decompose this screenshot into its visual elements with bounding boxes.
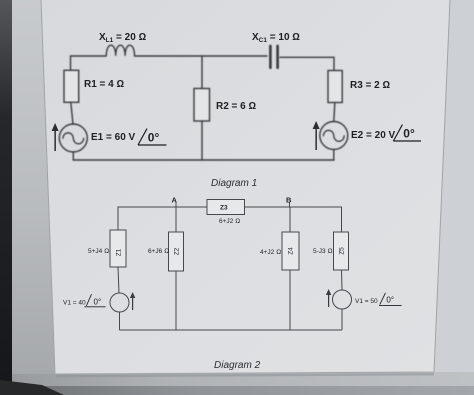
wire: diagram2 top rail right xyxy=(245,207,342,232)
resistor R2 xyxy=(194,89,210,122)
label Z1 rotated xyxy=(116,248,123,256)
label Z2 rotated xyxy=(174,247,181,255)
svg-text:Z4: Z4 xyxy=(288,247,295,255)
svg-text:V1 = 40: V1 = 40 xyxy=(63,299,86,306)
label R1 = 4 ohm xyxy=(84,79,125,90)
wire: diagram1 bottom rail xyxy=(73,159,334,161)
impedance Z4 xyxy=(282,232,299,270)
label V1 = 50 angle 0 xyxy=(355,293,402,306)
source V1 left xyxy=(110,293,129,312)
svg-text:R1 = 4 Ω: R1 = 4 Ω xyxy=(84,79,125,90)
node A label xyxy=(172,196,178,205)
label 6+J2 ohm xyxy=(219,218,240,225)
svg-text:V1 = 50: V1 = 50 xyxy=(355,298,378,305)
svg-text:Z2: Z2 xyxy=(174,247,181,255)
svg-text:0°: 0° xyxy=(148,131,160,145)
wire: R3 to E2 xyxy=(334,103,335,122)
label 5+J4 ohm xyxy=(88,248,109,255)
label XL1 = 20 ohm xyxy=(99,32,147,44)
label 6+J6 ohm xyxy=(148,248,169,255)
wire: diagram2 bottom rail xyxy=(120,329,343,331)
caption Diagram 1 xyxy=(211,178,257,189)
wire: V1 right to bottom rail xyxy=(341,309,343,330)
wire: E1 down to bottom rail xyxy=(72,152,74,160)
label Z3 xyxy=(220,205,228,212)
label 4+J2 ohm xyxy=(260,249,281,256)
wire: R1 to E1 xyxy=(71,102,73,124)
svg-text:5+J4 Ω: 5+J4 Ω xyxy=(88,248,109,255)
wire: R2 branch bottom xyxy=(201,121,203,160)
wire: Z5 to V1 right source xyxy=(341,270,344,290)
svg-text:Diagram 2: Diagram 2 xyxy=(214,360,261,371)
caption Diagram 2 xyxy=(214,360,261,371)
source E2 xyxy=(320,122,348,150)
label R3 = 2 ohm xyxy=(350,80,391,91)
svg-text:E2 = 20 V: E2 = 20 V xyxy=(351,130,396,141)
svg-text:4+J2 Ω: 4+J2 Ω xyxy=(260,249,281,256)
svg-text:R3 = 2 Ω: R3 = 2 Ω xyxy=(350,80,391,91)
wire: diagram1 top right segment xyxy=(280,57,334,70)
svg-text:6+J6 Ω: 6+J6 Ω xyxy=(148,248,169,255)
wire: Z4 branch xyxy=(289,207,291,330)
svg-text:Diagram 1: Diagram 1 xyxy=(211,178,257,189)
wire: diagram1 top-left segment xyxy=(71,56,107,70)
resistor R1 xyxy=(64,70,79,102)
current arrow at V1 right xyxy=(326,289,331,307)
impedance Z3 xyxy=(207,200,245,215)
inductor XL1 xyxy=(106,45,134,56)
label R2 = 6 ohm xyxy=(216,101,257,112)
svg-text:6+J2 Ω: 6+J2 Ω xyxy=(219,218,240,225)
svg-text:B: B xyxy=(286,196,292,205)
label E2 = 20 V angle 0 xyxy=(351,125,421,141)
wire: R2 branch top xyxy=(201,56,203,89)
svg-text:R2 = 6 Ω: R2 = 6 Ω xyxy=(216,101,257,112)
wire: Z2 branch xyxy=(175,207,177,330)
wire: Z1 to V1 left source xyxy=(118,267,119,293)
svg-text:Z5: Z5 xyxy=(339,247,346,255)
label V1 = 40 angle 0 xyxy=(63,294,106,307)
svg-text:0°: 0° xyxy=(386,296,394,305)
label Z4 rotated xyxy=(288,247,295,255)
svg-text:E1 = 60 V: E1 = 60 V xyxy=(91,132,136,143)
wire: V1 left to bottom rail xyxy=(119,312,121,330)
wire: diagram2 top rail left xyxy=(118,207,207,230)
svg-text:0°: 0° xyxy=(94,297,102,306)
node A tick xyxy=(175,202,177,207)
current arrow at E1 xyxy=(52,123,59,151)
label Z5 rotated xyxy=(339,247,346,255)
impedance Z5 xyxy=(334,232,349,270)
source E1 xyxy=(59,124,87,152)
label E1 = 60 V angle 0 xyxy=(91,129,167,145)
current arrow at E2 xyxy=(313,121,320,150)
wire: diagram1 top middle segment xyxy=(135,55,268,57)
capacitor XC1 xyxy=(270,46,277,68)
current arrow at V1 left xyxy=(130,292,135,310)
source V1 right xyxy=(333,290,352,309)
impedance Z1 xyxy=(110,230,126,267)
resistor R3 xyxy=(328,71,342,103)
svg-text:0°: 0° xyxy=(403,127,415,141)
svg-text:A: A xyxy=(172,196,178,205)
node B label xyxy=(286,196,292,205)
svg-text:Z3: Z3 xyxy=(220,205,228,212)
svg-text:5-J3 Ω: 5-J3 Ω xyxy=(313,248,332,255)
svg-text:Z1: Z1 xyxy=(116,248,123,256)
impedance Z2 xyxy=(169,232,184,271)
node B tick xyxy=(289,202,291,207)
label XC1 = 10 ohm xyxy=(252,32,300,44)
wire: E2 down to bottom rail xyxy=(333,150,335,161)
label 5-J3 ohm xyxy=(313,248,332,255)
